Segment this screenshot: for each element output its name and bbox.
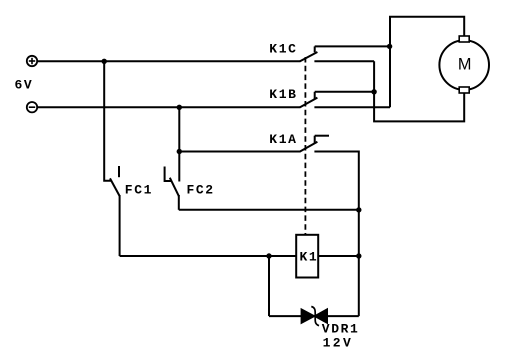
wire: vertical from - bus to FC2 <box>178 107 180 181</box>
wire: K1B throw to motor-bottom node <box>315 91 374 93</box>
wire: vertical from + bus to FC1 <box>104 61 111 181</box>
wire: motor bottom feed <box>374 61 464 121</box>
node: - bus / FC2 <box>177 105 182 110</box>
contact K1A <box>300 136 317 152</box>
node: FC2 / relay right <box>356 207 361 212</box>
node: K1 left <box>266 253 271 258</box>
node: K1 right <box>356 253 361 258</box>
switch FC1 <box>110 166 120 196</box>
svg-text:FC1: FC1 <box>125 183 153 198</box>
svg-text:12V: 12V <box>323 335 354 350</box>
wire: + bus <box>37 60 300 62</box>
svg-text:K1B: K1B <box>269 87 297 102</box>
node: motor top <box>387 44 392 49</box>
contact K1C <box>300 46 317 61</box>
node: + bus / FC1 <box>102 59 107 64</box>
wire: K1 right terminal <box>318 255 359 257</box>
wire: FC1 down <box>119 195 121 256</box>
wire: left branch down to VDR loop <box>268 256 270 316</box>
switch FC2 <box>165 167 179 197</box>
svg-text:K1A: K1A <box>269 132 297 147</box>
wire: FC1 bottom to K1 <box>120 255 297 257</box>
wire: K1B lower contact to motor-top node <box>314 106 390 108</box>
wire: VDR bottom loop <box>269 315 359 317</box>
wire: motor top feed <box>390 17 464 108</box>
svg-text:6V: 6V <box>15 78 34 93</box>
wire: K1C throw to motor-top node <box>315 45 390 47</box>
wire: - bus <box>37 106 300 108</box>
svg-text:M: M <box>458 55 472 73</box>
battery + terminal <box>27 56 37 66</box>
mechanical linkage (dashed) <box>304 57 306 235</box>
wire: K1A open stub <box>315 135 329 137</box>
node: FC2 / K1A branch <box>177 149 182 154</box>
svg-text:VDR1: VDR1 <box>322 321 360 336</box>
contact K1B <box>300 92 317 108</box>
battery - terminal <box>27 102 37 112</box>
wire: K1C lower contact to motor-bottom node <box>314 60 374 62</box>
wire: K1A lower contact down to relay <box>314 152 358 317</box>
node: motor bottom <box>371 89 376 94</box>
varistor VDR1 <box>302 307 327 326</box>
wire: FC2 down <box>178 195 180 210</box>
relay coil K1 <box>296 235 318 278</box>
svg-text:K1: K1 <box>300 249 319 264</box>
svg-text:FC2: FC2 <box>187 183 215 198</box>
wire: FC2 bottom to relay node <box>179 209 359 211</box>
svg-text:K1C: K1C <box>269 42 297 57</box>
motor M1 <box>439 36 489 93</box>
wire: branch to K1A pole <box>179 151 300 153</box>
